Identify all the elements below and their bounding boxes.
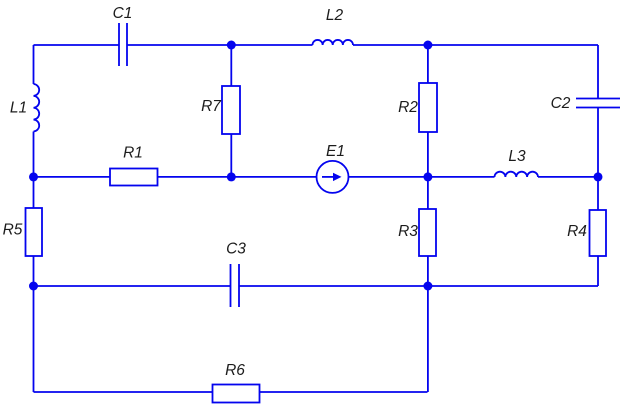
svg-text:L1: L1 xyxy=(10,99,27,116)
svg-text:C2: C2 xyxy=(551,95,571,112)
svg-text:R6: R6 xyxy=(225,362,245,379)
svg-text:R1: R1 xyxy=(123,144,143,161)
svg-text:R7: R7 xyxy=(201,98,222,115)
svg-text:E1: E1 xyxy=(326,143,345,160)
svg-text:C1: C1 xyxy=(113,5,133,22)
svg-text:L3: L3 xyxy=(508,148,526,165)
svg-text:R4: R4 xyxy=(567,223,587,240)
svg-text:R2: R2 xyxy=(398,99,418,116)
svg-text:R5: R5 xyxy=(3,221,23,238)
svg-text:C3: C3 xyxy=(226,240,246,257)
svg-text:R3: R3 xyxy=(398,223,418,240)
svg-text:L2: L2 xyxy=(326,7,344,24)
